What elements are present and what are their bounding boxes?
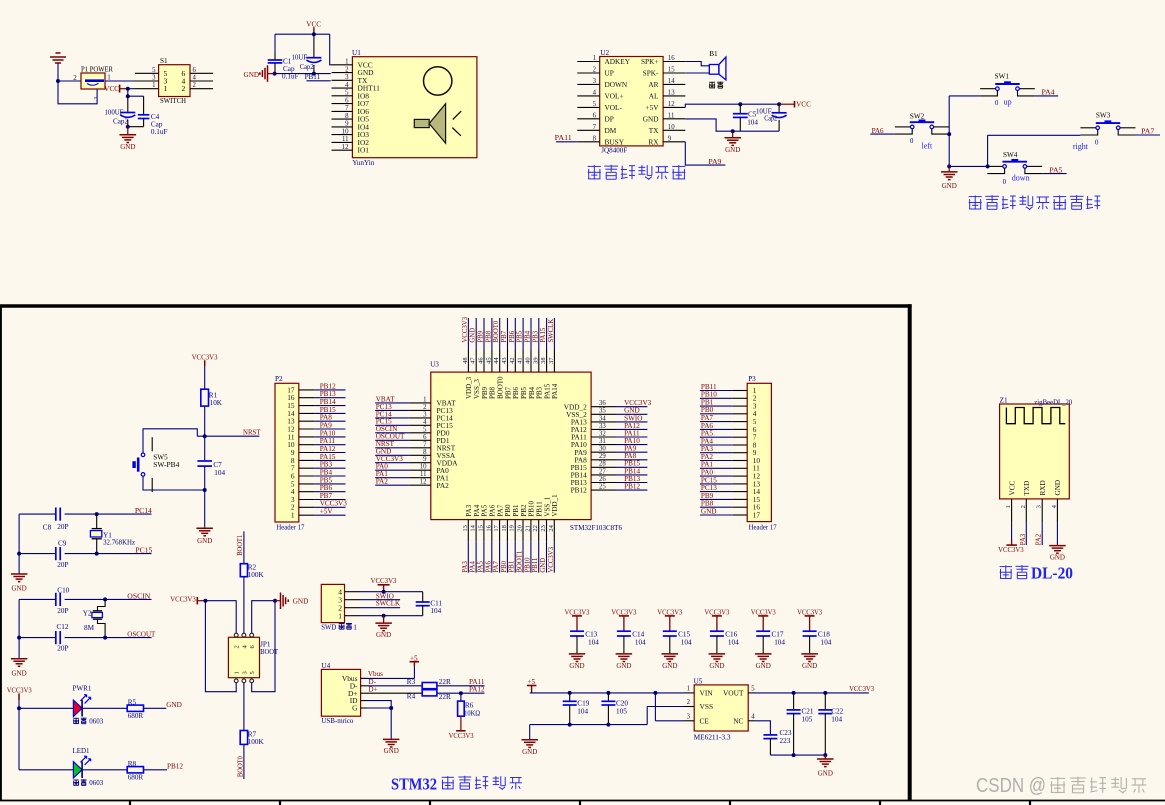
- svg-text:C16: C16: [725, 631, 737, 639]
- svg-text:GND: GND: [12, 670, 27, 678]
- U2 pin 9 RX: [663, 141, 685, 143]
- svg-text:36: 36: [599, 400, 606, 407]
- svg-text:PB10: PB10: [524, 557, 531, 573]
- wire SWD pin4: [361, 591, 423, 593]
- svg-text:VSS_1: VSS_1: [543, 496, 551, 516]
- ground GND below Y1 rail: [11, 573, 28, 575]
- svg-text:VCC: VCC: [104, 85, 119, 93]
- svg-text:PA15: PA15: [320, 453, 336, 461]
- U3 pin 27 PB14 net PB14: [591, 474, 616, 476]
- capacitor C20 105: [607, 693, 609, 701]
- U3 bottom pin 20 PB2 net BOOT1: [522, 520, 524, 542]
- svg-text:23: 23: [540, 525, 547, 532]
- svg-text:VCC: VCC: [796, 100, 811, 108]
- capacitor C11 104: [422, 592, 424, 602]
- svg-text:C20: C20: [616, 699, 628, 707]
- svg-text:right: right: [1073, 142, 1089, 151]
- U2 pin 5 VOL-: [577, 106, 599, 108]
- capacitor C19 104: [569, 693, 571, 701]
- svg-text:8: 8: [593, 136, 597, 143]
- svg-text:DL-20: DL-20: [1031, 564, 1073, 583]
- svg-text:VDD_1: VDD_1: [551, 494, 559, 517]
- big box top border: [0, 304, 912, 308]
- svg-text:PB4: PB4: [528, 386, 536, 399]
- wire NC to C23: [755, 721, 771, 735]
- connector SWD body: [321, 584, 344, 622]
- U3 top pin 40 PB4 net PB4: [530, 318, 532, 350]
- svg-text:C12: C12: [57, 623, 69, 631]
- svg-text:1: 1: [1005, 505, 1012, 508]
- U5 pin5 VOUT: [748, 692, 754, 694]
- S1 right pins 6 4 2: [190, 72, 213, 74]
- wire P1 pin 1 to S1 pin 3: [105, 80, 135, 82]
- svg-text:C8: C8: [43, 524, 52, 532]
- svg-text:PA15: PA15: [543, 383, 551, 399]
- sheet bottom line: [0, 800, 1165, 802]
- svg-text:PB1: PB1: [509, 561, 516, 573]
- svg-text:1: 1: [593, 55, 596, 62]
- wire cap bottoms to ground: [127, 120, 129, 127]
- svg-text:20P: 20P: [57, 607, 68, 615]
- svg-text:11: 11: [668, 113, 675, 120]
- wire JP1 pin6 to GND: [252, 601, 275, 634]
- svg-text:4: 4: [423, 419, 427, 426]
- svg-text:R3: R3: [407, 678, 416, 686]
- svg-text:35: 35: [599, 408, 606, 415]
- wire SPK- to speaker: [685, 72, 709, 74]
- power port VCC right of U2: [779, 103, 794, 105]
- svg-text:PB11: PB11: [532, 558, 539, 573]
- svg-text:12: 12: [420, 479, 427, 486]
- svg-text:SWITCH: SWITCH: [160, 97, 186, 105]
- connector P3 Header17 body: [747, 383, 771, 521]
- resistor R7 100K: [240, 731, 247, 745]
- U3 pin 36 VDD_2 net VCC3V3: [591, 406, 616, 408]
- svg-text:20P: 20P: [57, 561, 68, 569]
- label speaker chinese: [709, 81, 715, 83]
- net label PA5 wire: [1042, 173, 1066, 175]
- U3 bottom pin 18 PB0 net PB0: [506, 520, 508, 542]
- svg-text:PA5: PA5: [1049, 166, 1062, 174]
- svg-text:GND: GND: [569, 662, 584, 670]
- svg-text:12: 12: [668, 101, 675, 108]
- svg-text:7: 7: [593, 124, 597, 131]
- wire JP1 pin3 to R7: [243, 683, 245, 731]
- svg-text:0: 0: [995, 100, 999, 107]
- svg-text:GND: GND: [293, 597, 309, 605]
- svg-text:PA3: PA3: [701, 445, 714, 453]
- net label Vbus wire: [361, 677, 415, 679]
- svg-text:C1: C1: [283, 57, 292, 65]
- capacitor C14 104: [617, 630, 631, 632]
- switch SW4 (down): [1003, 161, 1028, 163]
- U3 pin 25 PB12 net PB12: [591, 489, 616, 491]
- U3 top pin 48 VDD_3 net VCC3V3: [467, 318, 469, 350]
- svg-text:4: 4: [193, 75, 197, 82]
- svg-text:GND: GND: [725, 146, 740, 154]
- svg-text:41: 41: [517, 357, 524, 364]
- svg-text:PB9: PB9: [481, 386, 489, 399]
- wire VCC3V3 to LED rows: [18, 700, 20, 770]
- switch SW1 (up): [995, 83, 1020, 85]
- svg-text:PB8: PB8: [489, 386, 497, 399]
- svg-text:PC13: PC13: [701, 484, 717, 492]
- svg-text:C10: C10: [57, 587, 69, 595]
- svg-text:2: 2: [1020, 505, 1027, 508]
- svg-text:7: 7: [345, 105, 349, 112]
- svg-text:0.1uF: 0.1uF: [151, 128, 168, 136]
- svg-text:SW2: SW2: [910, 113, 925, 121]
- svg-text:PA6: PA6: [489, 504, 497, 516]
- svg-text:zigBeeDL_20: zigBeeDL_20: [1034, 399, 1072, 407]
- svg-text:PA7: PA7: [493, 561, 500, 573]
- svg-text:Z1: Z1: [1000, 397, 1008, 405]
- wire gnd node to U1 pin2: [275, 73, 331, 75]
- svg-text:17: 17: [753, 510, 761, 519]
- svg-text:6: 6: [423, 434, 427, 441]
- svg-text:PA9: PA9: [708, 158, 721, 166]
- svg-text:CE: CE: [700, 716, 710, 725]
- svg-text:PA5: PA5: [701, 430, 714, 438]
- wire R3 to PA11: [437, 685, 485, 687]
- svg-text:10KΩ: 10KΩ: [464, 709, 480, 717]
- U2 pin 16 SPK+: [663, 61, 685, 63]
- svg-text:32.768KHz: 32.768KHz: [103, 538, 135, 546]
- crystal Y2 8M: [98, 599, 106, 610]
- ground GND right of JP1: [275, 600, 281, 602]
- U5 pin2 VSS: [684, 706, 694, 708]
- svg-text:3: 3: [1036, 505, 1043, 508]
- svg-text:C7: C7: [213, 461, 222, 469]
- svg-text:PB5: PB5: [517, 330, 524, 342]
- svg-text:R4: R4: [407, 692, 416, 700]
- label green led 0603: [73, 779, 79, 781]
- wire node to P1 pin 2: [58, 80, 81, 82]
- ground GND for C15: [669, 652, 671, 655]
- svg-text:5: 5: [249, 671, 256, 674]
- U1 speaker horn icon: [414, 119, 429, 127]
- svg-text:GND: GND: [522, 748, 537, 756]
- svg-text:PB13: PB13: [320, 390, 336, 398]
- svg-text:up: up: [1004, 98, 1012, 107]
- wire VSS to gnd rail: [647, 706, 684, 708]
- svg-text:PA12: PA12: [469, 685, 485, 693]
- switch SW2 (left): [910, 121, 934, 123]
- svg-text:PB14: PB14: [320, 398, 336, 406]
- svg-text:PA12: PA12: [320, 445, 336, 453]
- svg-text:BOOT: BOOT: [260, 648, 279, 656]
- capacitor C21 105: [793, 693, 795, 710]
- U3 top pin 41 PB5 net PB5: [522, 318, 524, 350]
- svg-text:C19: C19: [577, 699, 589, 707]
- wire GND loop to JP1 pin5: [252, 601, 275, 692]
- svg-text:48: 48: [462, 357, 469, 364]
- svg-text:9: 9: [423, 456, 427, 463]
- JP1 pin circles and numbers: [234, 633, 238, 637]
- svg-text:TX: TX: [649, 126, 659, 135]
- U3 bottom pin 24 VDD_1 net VCC3V3: [553, 520, 555, 542]
- svg-text:6: 6: [193, 67, 197, 74]
- svg-text:104: 104: [728, 638, 739, 646]
- svg-text:SPK-: SPK-: [643, 69, 659, 78]
- U3 pin 32 PA11 net PA11: [591, 436, 616, 438]
- resistor R4 22R: [422, 690, 437, 696]
- svg-text:105: 105: [802, 715, 813, 723]
- capacitor C17 104: [756, 630, 770, 632]
- svg-text:0603: 0603: [89, 718, 104, 726]
- svg-text:PB2: PB2: [520, 504, 528, 517]
- svg-text:GND: GND: [701, 507, 717, 515]
- svg-text:PC15: PC15: [135, 547, 152, 555]
- svg-text:C15: C15: [678, 631, 690, 639]
- svg-text:24: 24: [548, 524, 555, 531]
- svg-text:VDD_3: VDD_3: [465, 376, 473, 399]
- svg-text:SW-PB4: SW-PB4: [153, 461, 179, 469]
- svg-text:12: 12: [342, 144, 349, 151]
- svg-text:3: 3: [687, 714, 691, 721]
- svg-text:1: 1: [291, 511, 295, 520]
- U3 top pin 43 PB7 net PB7: [507, 318, 509, 350]
- svg-text:21: 21: [524, 525, 531, 532]
- svg-text:2: 2: [234, 645, 241, 648]
- svg-text:PB12: PB12: [571, 486, 588, 495]
- wire VCC rail: [275, 33, 330, 35]
- svg-text:3: 3: [94, 97, 100, 100]
- svg-text:PB7: PB7: [501, 330, 508, 342]
- wire LED to R5: [82, 707, 127, 709]
- power port VCC3V3 below R6: [460, 716, 462, 731]
- svg-text:7: 7: [423, 441, 427, 448]
- svg-text:GND: GND: [384, 747, 399, 755]
- svg-text:0: 0: [1003, 179, 1007, 186]
- svg-text:46: 46: [478, 357, 485, 364]
- svg-text:PB15: PB15: [320, 406, 336, 414]
- svg-text:VOUT: VOUT: [723, 688, 744, 697]
- svg-text:13: 13: [462, 525, 469, 532]
- net label BOOT0 wire: [243, 744, 245, 779]
- svg-text:PB6: PB6: [509, 330, 516, 342]
- switch S1 body: [159, 65, 190, 97]
- resistor R5 680R: [127, 705, 143, 711]
- wire U2 GND rail: [685, 119, 779, 131]
- U3 top pin 45 PB8 net PB8: [491, 318, 493, 350]
- wire SW5 bottom to C7 node: [143, 476, 205, 490]
- svg-text:100UF: 100UF: [105, 109, 124, 117]
- svg-text:PA9: PA9: [320, 421, 333, 429]
- wire VCC3V3 loop to JP1 pin1: [205, 601, 236, 692]
- wire PC14 rail: [19, 513, 56, 515]
- big box right border: [908, 304, 912, 800]
- svg-text:U2: U2: [600, 49, 609, 57]
- svg-text:PB4: PB4: [320, 468, 333, 476]
- svg-text:DOWN: DOWN: [605, 80, 628, 89]
- U5 pin1 VIN: [684, 692, 694, 694]
- svg-text:14: 14: [470, 524, 477, 531]
- svg-text:1: 1: [353, 622, 357, 631]
- svg-text:PB3: PB3: [532, 330, 539, 342]
- svg-text:19: 19: [509, 525, 516, 532]
- capacitor C4 0.1uF: [143, 96, 145, 115]
- svg-text:5: 5: [345, 90, 349, 97]
- svg-text:GND: GND: [1050, 553, 1065, 561]
- svg-text:VCC3V3: VCC3V3: [548, 546, 555, 572]
- svg-text:B1: B1: [709, 50, 718, 58]
- ground GND SWD: [383, 616, 385, 623]
- svg-text:PB5: PB5: [520, 386, 528, 399]
- svg-text:PA7: PA7: [701, 414, 714, 422]
- net label NRST wire: [197, 435, 259, 437]
- IC U2 JQ8400F body: [600, 57, 663, 146]
- resistor R1 10K: [201, 389, 209, 406]
- U2 pin 11 GND: [663, 118, 685, 120]
- svg-text:680R: 680R: [128, 712, 144, 720]
- wire VCC rail to U1 pin1: [330, 34, 332, 65]
- svg-text:GND: GND: [540, 558, 547, 573]
- svg-text:PA15: PA15: [540, 327, 547, 342]
- svg-text:PB6: PB6: [320, 484, 333, 492]
- U3 top pin 38 PA15 net PA15: [546, 318, 548, 350]
- U3 pin 28 PB15 net PB15: [591, 466, 616, 468]
- svg-text:PB12: PB12: [320, 382, 336, 390]
- svg-text:PB11: PB11: [536, 501, 544, 517]
- capacitor C7 104: [204, 436, 206, 461]
- U3 top pin 46 PB9 net PB9: [483, 318, 485, 350]
- wire left rail Y1: [18, 514, 20, 574]
- svg-text:PA3: PA3: [465, 504, 473, 516]
- jumper block JP1 BOOT: [228, 637, 259, 677]
- U1 pin 7 IO6: [332, 110, 353, 112]
- svg-text:PB10: PB10: [701, 391, 717, 399]
- U1 pin 3 TX: [332, 79, 353, 81]
- svg-text:9: 9: [345, 121, 349, 128]
- svg-text:STM32F103C8T6: STM32F103C8T6: [570, 523, 622, 532]
- svg-text:VCC3V3: VCC3V3: [998, 546, 1024, 554]
- svg-text:NRST: NRST: [243, 429, 261, 437]
- net label PA6 wire: [870, 133, 895, 135]
- resistor R2 100K: [240, 564, 247, 577]
- wire +5 rail to U5 VIN: [530, 692, 684, 694]
- svg-text:PC14: PC14: [135, 507, 152, 515]
- svg-text:PB11: PB11: [305, 73, 321, 81]
- U3 top pin 44 BOOT0 net BOOT0: [499, 318, 501, 350]
- svg-text:47: 47: [470, 357, 477, 364]
- svg-text:P2: P2: [275, 375, 283, 383]
- svg-text:PB7: PB7: [504, 386, 512, 399]
- svg-text:PA8: PA8: [320, 414, 333, 422]
- capacitor C23 223: [763, 734, 777, 736]
- svg-text:U3: U3: [430, 360, 439, 368]
- wire C1 to gnd node: [274, 63, 276, 74]
- wire R2 to JP1 pin4: [243, 577, 245, 634]
- svg-text:GND: GND: [756, 662, 771, 670]
- svg-text:PA4: PA4: [470, 561, 477, 573]
- svg-text:22: 22: [532, 525, 539, 532]
- svg-text:+5V: +5V: [320, 508, 334, 516]
- net label SWIO wire: [361, 599, 401, 601]
- capacitor C22 104: [824, 693, 826, 710]
- IC U1 YunYin body: [352, 57, 477, 158]
- capacitor C13 104: [570, 630, 584, 632]
- svg-text:SW1: SW1: [995, 73, 1010, 81]
- wire VCC3V3 to JP1 pin2: [205, 601, 236, 634]
- svg-text:5: 5: [152, 67, 156, 74]
- capacitor C10 20P: [55, 593, 57, 606]
- U2 pin 13 AL: [663, 95, 685, 97]
- ground GND for C14: [623, 652, 625, 655]
- ground GND below C7: [204, 526, 206, 528]
- svg-text:GND: GND: [376, 631, 391, 639]
- ground GND below Y2 rail: [11, 658, 28, 660]
- ground GND for C16: [716, 652, 718, 655]
- wire R4 to PA12: [437, 692, 485, 694]
- svg-text:104: 104: [588, 638, 599, 646]
- svg-text:10: 10: [668, 124, 675, 131]
- svg-text:PA7: PA7: [1141, 127, 1154, 135]
- svg-text:U1: U1: [352, 49, 361, 57]
- U5 pin3 CE: [684, 720, 694, 722]
- svg-text:43: 43: [501, 357, 508, 364]
- svg-text:10K: 10K: [210, 399, 223, 407]
- svg-text:16: 16: [485, 524, 492, 531]
- wire Z1 pin1 to VCC3V3: [1011, 523, 1013, 540]
- svg-text:SWD: SWD: [321, 622, 337, 631]
- svg-text:PA3: PA3: [1020, 533, 1027, 545]
- svg-text:17: 17: [493, 524, 500, 531]
- svg-text:SW3: SW3: [1096, 112, 1111, 120]
- U3 pin 35 VSS_2 net GND: [591, 413, 616, 415]
- wire C23 gnd rail: [770, 754, 825, 756]
- svg-text:PA11: PA11: [320, 437, 336, 445]
- net label D+ wire: [367, 692, 423, 694]
- svg-text:GND: GND: [802, 662, 817, 670]
- U3 pin 33 PA12 net PA12: [591, 428, 616, 430]
- svg-text:3: 3: [593, 78, 597, 85]
- capacitor C8 20P: [55, 508, 57, 521]
- switch SW3 (right): [1096, 122, 1120, 124]
- svg-text:Vbus: Vbus: [368, 670, 383, 678]
- svg-text:42: 42: [509, 357, 516, 364]
- svg-text:PB0: PB0: [501, 560, 508, 572]
- svg-text:PB7: PB7: [320, 492, 333, 500]
- U2 pin 8 BUSY: [577, 141, 599, 143]
- svg-text:PA2: PA2: [437, 481, 450, 490]
- svg-text:PA2: PA2: [701, 453, 714, 461]
- svg-text:GND: GND: [643, 114, 659, 123]
- wire R8 to PB12 label: [144, 769, 168, 771]
- svg-text:PA0: PA0: [701, 469, 714, 477]
- wire RX to PA9: [685, 142, 725, 165]
- svg-text:BUSY: BUSY: [605, 137, 625, 146]
- svg-text:9: 9: [668, 136, 672, 143]
- wire Z1 pin3 net PA2: [1041, 523, 1043, 545]
- svg-text:PA5: PA5: [477, 561, 484, 573]
- ground rail buttons: [949, 165, 987, 167]
- svg-text:USB-mrico: USB-mrico: [321, 717, 353, 725]
- wire VCC to S1 pin 1: [128, 88, 135, 90]
- svg-text:C9: C9: [58, 540, 67, 548]
- svg-text:3: 3: [345, 74, 349, 81]
- svg-text:PB5: PB5: [320, 476, 333, 484]
- svg-text:BOOT1: BOOT1: [237, 535, 244, 556]
- svg-text:18: 18: [501, 525, 508, 532]
- svg-text:GND: GND: [470, 328, 477, 343]
- svg-text:8: 8: [423, 449, 427, 456]
- U2 pin 12 +5V: [663, 106, 685, 108]
- svg-text:PA4: PA4: [473, 504, 481, 516]
- net label SWCLK wire: [361, 607, 401, 609]
- svg-text:10UF: 10UF: [292, 54, 308, 62]
- svg-text:15: 15: [668, 67, 675, 74]
